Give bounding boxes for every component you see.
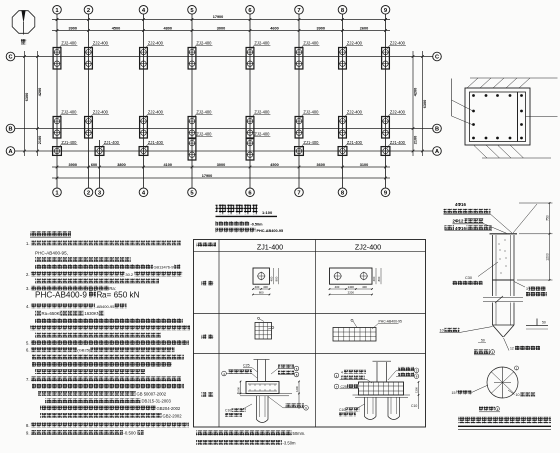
svg-text:15: 15 xyxy=(452,391,456,395)
svg-text:ZJ2-400: ZJ2-400 xyxy=(254,110,270,115)
svg-text:GB204-2002: GB204-2002 xyxy=(157,406,181,411)
svg-text:C25: C25 xyxy=(243,364,250,368)
pile cap ZJ2-400 axis 8/C xyxy=(339,48,347,70)
svg-text:ZJ2-400: ZJ2-400 xyxy=(254,132,270,137)
svg-text:1.: 1. xyxy=(26,241,30,246)
label ZJ2-400 axis 2/C xyxy=(90,41,109,49)
svg-text:2200: 2200 xyxy=(348,291,355,295)
svg-text:4: 4 xyxy=(341,371,343,375)
label ZJ1-400 axis 1/A xyxy=(59,140,78,148)
pile cap ZJ2-400 axis 2/B xyxy=(85,117,93,139)
axis bubbles C B A right xyxy=(433,52,442,155)
pile cap ZJ2-400 axis 6/C xyxy=(246,48,254,70)
pile detail right dimensions xyxy=(517,202,553,281)
note 6 xyxy=(26,347,174,352)
svg-text:C10: C10 xyxy=(225,409,231,413)
svg-text:10: 10 xyxy=(516,393,520,397)
svg-text:A: A xyxy=(8,149,12,155)
column section detail outer square xyxy=(465,88,530,145)
svg-text:Ra=650KN: Ra=650KN xyxy=(42,311,63,316)
left dimension line segments 4200 2100 xyxy=(36,51,42,156)
ZJ1-400 reinforcement plan xyxy=(255,317,274,339)
pile cap ZJ1-400 axis 7/A xyxy=(295,147,304,156)
svg-text:ZJ2-400: ZJ2-400 xyxy=(148,110,164,115)
column section bottom leader group xyxy=(474,145,552,158)
note 4 line 2 xyxy=(35,311,104,316)
label ZJ1-400 axis 7/A xyxy=(301,140,320,148)
svg-text:6300: 6300 xyxy=(25,93,29,101)
pile cap ZJ2-400 axis 1/C xyxy=(53,48,61,70)
svg-text:ZJ2-400: ZJ2-400 xyxy=(355,243,381,252)
note 5 xyxy=(26,340,189,345)
label ZJ2-400 axis 5/A xyxy=(194,132,213,140)
svg-text:2: 2 xyxy=(87,8,90,14)
svg-text:C10: C10 xyxy=(339,408,345,412)
svg-text:400: 400 xyxy=(255,285,260,289)
label ZJ2-400 axis 7/C xyxy=(301,41,320,49)
svg-text:17900: 17900 xyxy=(202,174,213,178)
notes title 静压桩桩基说明 xyxy=(30,231,71,237)
note 2 xyxy=(26,272,182,277)
label ZJ1-400 axis 8/A xyxy=(344,140,363,148)
pile cap ZJ2-400 axis 4/B xyxy=(140,117,148,139)
svg-text:ZJ2-400: ZJ2-400 xyxy=(347,41,363,46)
svg-text:-0.50m: -0.50m xyxy=(251,222,264,226)
svg-text:50: 50 xyxy=(481,339,485,343)
pile cap ZJ1-400 axis 3/A xyxy=(95,147,104,156)
pile cap ZJ2-400 axis 2/C xyxy=(85,48,93,70)
table header 桩台类型 xyxy=(197,242,217,247)
bottom right title 静压桩桩顶预埋件电焊示意大样 xyxy=(458,417,551,430)
svg-text:1200: 1200 xyxy=(545,253,549,261)
svg-text:ZJ1-400: ZJ1-400 xyxy=(347,140,363,145)
svg-text:3900: 3900 xyxy=(69,27,77,31)
note 7 code GB202-2002 xyxy=(40,413,182,418)
label ZJ2-400 axis 5/B xyxy=(194,110,213,118)
svg-text:-3.50m: -3.50m xyxy=(283,440,297,445)
north compass xyxy=(12,10,35,44)
note below table -3.50m xyxy=(196,440,296,445)
pile tip detail label 10厚钢板 right xyxy=(508,390,536,397)
note 6 line 4 xyxy=(35,369,145,374)
pile detail C30 label xyxy=(453,262,499,285)
svg-text:ZJ2-400: ZJ2-400 xyxy=(196,110,212,115)
svg-text:GB13476-99: GB13476-99 xyxy=(154,264,176,269)
pile cap ZJ1-400 axis 9/A xyxy=(381,147,390,156)
svg-text:C30: C30 xyxy=(465,276,472,280)
svg-text:ZJ2-400: ZJ2-400 xyxy=(148,41,164,46)
note 1 line 4 xyxy=(35,264,180,269)
note 7 code GB204-2002 xyxy=(40,406,181,411)
grid lines (vertical axes 1-9) xyxy=(57,15,386,188)
svg-text:B: B xyxy=(8,127,12,133)
svg-text:5.: 5. xyxy=(26,340,30,345)
svg-text:400: 400 xyxy=(270,276,274,281)
pile detail labels top xyxy=(444,202,538,233)
svg-text:1:100: 1:100 xyxy=(262,210,273,215)
pile cap ZJ2-400 axis 7/B xyxy=(295,117,303,139)
svg-text:2100: 2100 xyxy=(38,136,42,144)
svg-text:GB 50007-2002: GB 50007-2002 xyxy=(137,391,167,396)
svg-text:ZJ2-400: ZJ2-400 xyxy=(61,110,77,115)
svg-text:50: 50 xyxy=(542,321,546,325)
svg-text:4800: 4800 xyxy=(164,27,172,31)
note 1 line 3 xyxy=(35,257,131,262)
pile tip weld detail circle xyxy=(487,366,519,398)
svg-text:2.: 2. xyxy=(26,272,30,277)
row label 配筋 xyxy=(202,334,214,339)
svg-text:4500: 4500 xyxy=(112,27,120,31)
svg-text:ZJ1-400: ZJ1-400 xyxy=(104,140,120,145)
svg-text:12: 12 xyxy=(510,347,514,351)
label ZJ2-400 axis 5/C xyxy=(194,41,213,49)
svg-text:PHC-AB400-9: PHC-AB400-9 xyxy=(35,291,87,300)
pile detail 3厚钢板 label xyxy=(514,282,547,297)
pile cap table frame xyxy=(194,240,426,428)
label ZJ2-400 axis 6/C xyxy=(252,41,271,49)
svg-text:7.: 7. xyxy=(26,377,30,382)
svg-text:-0.500: -0.500 xyxy=(123,430,136,435)
note line under title 1 xyxy=(216,221,264,226)
ZJ2-400 reinforcement plan xyxy=(333,319,402,341)
note 7 xyxy=(26,377,181,382)
svg-text:2600: 2600 xyxy=(360,27,368,31)
svg-text:3900: 3900 xyxy=(317,27,325,31)
svg-text:C: C xyxy=(435,55,439,61)
note line under title 2 xyxy=(216,228,284,233)
pile cap ZJ2-400 axis 6/B xyxy=(246,117,254,139)
pile detail lower shaft and tip xyxy=(493,303,515,338)
pile cap ZJ2-400 axis 7/C xyxy=(295,48,303,70)
pile cap ZJ2-400 axis 5/A xyxy=(188,139,196,161)
svg-text:4Φ16: 4Φ16 xyxy=(455,202,466,207)
svg-text:3: 3 xyxy=(526,287,528,291)
svg-text:(GB25): (GB25) xyxy=(77,348,91,353)
label ZJ2-400 axis 2/B xyxy=(90,110,109,118)
label ZJ2-400 axis 9/B xyxy=(387,110,406,118)
pile cap ZJ2-400 axis 9/B xyxy=(382,117,390,139)
axis bubbles C B A left xyxy=(6,52,15,155)
label ZJ1-400 axis 9/A xyxy=(387,140,406,148)
pile cap ZJ2-400 axis 1/B xyxy=(53,117,61,139)
svg-text:3600: 3600 xyxy=(317,163,325,167)
svg-text:ZJ1-400: ZJ1-400 xyxy=(257,243,283,252)
svg-text:4Φ16: 4Φ16 xyxy=(455,226,466,231)
svg-text:ZJ2-400: ZJ2-400 xyxy=(390,110,406,115)
pile cap ZJ2-400 axis 4/C xyxy=(140,48,148,70)
svg-text:ZJ2-400: ZJ2-400 xyxy=(303,110,319,115)
label ZJ2-400 axis 8/C xyxy=(344,41,363,49)
pile cap ZJ2-400 axis 5/C xyxy=(188,48,196,70)
svg-text:A: A xyxy=(435,149,439,155)
svg-text:2: 2 xyxy=(87,190,90,196)
svg-text:2Φ12: 2Φ12 xyxy=(453,219,464,224)
svg-text:10: 10 xyxy=(440,329,444,333)
note 6 line 3 xyxy=(32,362,172,367)
ZJ2-400 plan view xyxy=(329,268,382,295)
ZJ1-400 plan view xyxy=(252,268,279,295)
svg-text:400: 400 xyxy=(372,276,376,281)
svg-text:50mm.: 50mm. xyxy=(293,431,306,436)
axis bubbles top row xyxy=(53,6,390,15)
svg-text:ZJ2-400: ZJ2-400 xyxy=(93,41,109,46)
svg-text:6300: 6300 xyxy=(423,100,427,108)
svg-text:30.2: 30.2 xyxy=(125,272,134,277)
note 6 line 2 xyxy=(32,355,184,360)
note 7 code GB 50007-2002 xyxy=(38,391,167,396)
top dimension line total 17900 xyxy=(52,15,390,21)
label ZJ2-400 axis 9/C xyxy=(387,41,406,49)
svg-text:8.: 8. xyxy=(26,423,30,428)
svg-text:PHC-AB400-95,: PHC-AB400-95, xyxy=(35,250,68,255)
svg-text:4200: 4200 xyxy=(38,88,42,96)
svg-text:4600: 4600 xyxy=(270,27,278,31)
pile cap ZJ1-400 axis 1/A xyxy=(53,147,62,156)
svg-text:3000: 3000 xyxy=(217,163,225,167)
label ZJ1-400 axis 3/A xyxy=(101,140,120,148)
row label 平面 xyxy=(202,281,214,286)
label ZJ2-400 axis 1/C xyxy=(59,41,78,49)
note below table 50mm xyxy=(196,431,305,436)
pile cap ZJ2-400 axis 8/B xyxy=(339,117,347,139)
note 3 value PHC-AB400-95 Ra=650kN xyxy=(35,291,140,300)
svg-text:2100: 2100 xyxy=(414,136,418,144)
svg-text:17900: 17900 xyxy=(213,15,224,19)
svg-text:ZJ1-400: ZJ1-400 xyxy=(390,140,406,145)
pile cap ZJ2-400 axis 9/C xyxy=(382,48,390,70)
svg-text:ZJ1-400: ZJ1-400 xyxy=(148,140,164,145)
svg-text:400: 400 xyxy=(335,285,340,289)
pile detail 桩顶详1 label xyxy=(474,350,495,355)
svg-text:3100: 3100 xyxy=(360,163,368,167)
svg-text:7: 7 xyxy=(297,190,300,196)
svg-text:ZJ1-400: ZJ1-400 xyxy=(61,140,77,145)
note 7 code DBJ15-31-2003 xyxy=(45,398,172,403)
note 8 xyxy=(26,423,189,428)
svg-text:ZJ2-400: ZJ2-400 xyxy=(196,132,212,137)
svg-text:1300: 1300 xyxy=(415,387,419,393)
svg-text:DBJ15-31-2003: DBJ15-31-2003 xyxy=(142,399,172,404)
right dimension line total 6300 xyxy=(421,51,427,156)
label ZJ2-400 axis 6/A xyxy=(252,132,271,140)
svg-text:800: 800 xyxy=(377,276,381,281)
label ZJ2-400 axis 7/B xyxy=(301,110,320,118)
pile detail break symbol xyxy=(483,296,523,303)
svg-text:400: 400 xyxy=(263,285,268,289)
note 1 line 2 PHC-AB400-95 xyxy=(35,250,68,255)
svg-text:1000: 1000 xyxy=(237,387,241,393)
svg-text:6.: 6. xyxy=(26,348,30,353)
note 4 line 5 xyxy=(35,333,161,338)
label ZJ2-400 axis 1/B xyxy=(59,110,78,118)
note 4 line 4 xyxy=(30,325,190,330)
column section top leader group xyxy=(467,78,558,88)
pile detail 12厚连接钢板 label xyxy=(504,338,541,351)
svg-text:B: B xyxy=(435,127,439,133)
note 4 xyxy=(26,304,127,309)
svg-text:4.: 4. xyxy=(26,304,30,309)
svg-text:ZJ2-400: ZJ2-400 xyxy=(93,110,109,115)
label ZJ2-400 axis 4/C xyxy=(145,41,164,49)
label ZJ2-400 axis 6/B xyxy=(252,110,271,118)
column section rebar dots xyxy=(472,94,523,139)
svg-text:ZJ2-400: ZJ2-400 xyxy=(61,41,77,46)
top dimension line segments xyxy=(52,27,390,32)
ZJ2-400 section view xyxy=(334,361,419,419)
grid lines (horizontal axes A B C) xyxy=(15,57,433,152)
svg-text:ZJ1-400: ZJ1-400 xyxy=(303,140,319,145)
svg-text:ZJ2-400: ZJ2-400 xyxy=(303,41,319,46)
svg-text:400: 400 xyxy=(362,285,367,289)
bottom dimension line segments xyxy=(52,163,390,169)
label ZJ1-400 axis 4/A xyxy=(145,140,164,148)
svg-text:4200: 4200 xyxy=(414,88,418,96)
svg-text:4100: 4100 xyxy=(164,163,172,167)
svg-text:1400: 1400 xyxy=(348,285,355,289)
note 2 line 2 xyxy=(35,279,159,284)
ZJ1-400 section view xyxy=(222,360,309,423)
svg-text:C: C xyxy=(8,55,12,61)
axis bubbles bottom row xyxy=(53,188,390,197)
row label 剖面 xyxy=(202,392,214,397)
left dimension line total 6300 xyxy=(23,51,29,156)
svg-text:GB2-2002: GB2-2002 xyxy=(163,413,183,418)
svg-text:a= 650 kN: a= 650 kN xyxy=(102,291,140,300)
svg-text:3900: 3900 xyxy=(69,163,77,167)
svg-text:1630KN: 1630KN xyxy=(84,311,100,316)
svg-text:600: 600 xyxy=(91,163,97,167)
svg-text:ZJ2-400: ZJ2-400 xyxy=(196,41,212,46)
column section mid horizontal line xyxy=(526,116,558,118)
pile cap ZJ1-400 axis 8/A xyxy=(338,147,347,156)
pile detail 10厚钢板 label bottom left xyxy=(440,327,493,343)
svg-text:7: 7 xyxy=(297,8,300,14)
bottom dimension line total 17900 xyxy=(52,174,390,180)
svg-text:PHC-AB400-95: PHC-AB400-95 xyxy=(257,229,284,233)
svg-text:3000: 3000 xyxy=(217,27,225,31)
svg-text:ZJ2-400: ZJ2-400 xyxy=(390,41,406,46)
pile cap ZJ2-400 axis 5/B xyxy=(188,117,196,139)
svg-text:ZJ2-400: ZJ2-400 xyxy=(254,41,270,46)
svg-text:PHC-AB400-95: PHC-AB400-95 xyxy=(379,320,402,324)
label ZJ2-400 axis 8/B xyxy=(344,110,363,118)
svg-text:ZJ2-400: ZJ2-400 xyxy=(347,110,363,115)
svg-text:9.: 9. xyxy=(26,430,30,435)
svg-text:3800: 3800 xyxy=(117,163,125,167)
svg-text:800: 800 xyxy=(275,276,279,281)
label ZJ2-400 axis 4/B xyxy=(145,110,164,118)
pile cap ZJ2-400 axis 6/A xyxy=(246,139,254,161)
column section left leader bracket xyxy=(452,79,473,125)
svg-text:800: 800 xyxy=(259,291,264,295)
title 基础平面图 1:100 xyxy=(216,205,278,217)
note 7 line 2 xyxy=(32,384,184,389)
note 3 xyxy=(26,286,116,291)
svg-text:750: 750 xyxy=(545,215,549,221)
svg-text:4500: 4500 xyxy=(270,163,278,167)
note 1 xyxy=(26,241,181,246)
pile detail plate symbol right xyxy=(526,319,548,330)
note 4 line 3 xyxy=(35,318,183,323)
right dimension line segments 4200 2100 xyxy=(412,51,418,156)
pile tip detail label 15厚钢板 xyxy=(452,385,489,395)
svg-text:3.: 3. xyxy=(26,286,30,291)
pile tip detail title 桩顶详2 xyxy=(479,407,500,412)
svg-text:-AB400-95: -AB400-95 xyxy=(95,304,115,309)
note 9 xyxy=(26,430,144,435)
svg-text:C10: C10 xyxy=(411,404,417,408)
svg-text:1200: 1200 xyxy=(295,386,299,392)
pile detail shaft xyxy=(490,234,518,296)
pile cap ZJ1-400 axis 4/A xyxy=(139,147,148,156)
